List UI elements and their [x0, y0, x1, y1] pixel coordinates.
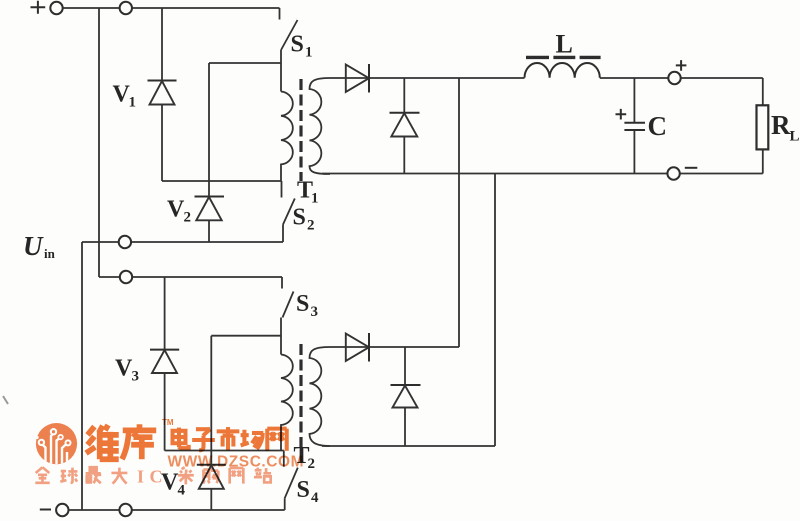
wire primary bottom junction [162, 180, 281, 182]
label T1 [297, 178, 319, 207]
watermark text dianzishichangwang [173, 428, 189, 449]
terminal + input [50, 2, 62, 14]
svg-text:S: S [296, 291, 309, 317]
label Uin [23, 231, 56, 261]
svg-text:V: V [167, 197, 185, 223]
label V1 [113, 82, 137, 111]
watermark logo circle [36, 423, 77, 464]
label - (output minus) [685, 167, 698, 169]
terminal top mid [120, 2, 132, 14]
terminal - output [667, 167, 679, 179]
terminal + output [668, 72, 680, 84]
svg-text:1: 1 [129, 95, 137, 111]
svg-text:I: I [137, 467, 144, 487]
svg-text:C: C [150, 467, 163, 487]
svg-text:TM: TM [162, 418, 174, 427]
svg-text:4: 4 [178, 483, 186, 499]
label + (capacitor polarity) [616, 109, 627, 120]
wire mid rail 2 [99, 276, 282, 278]
wire left vertical (top rail to wire2) [98, 8, 100, 277]
label T2 [294, 443, 316, 472]
transformer T2 secondary [310, 347, 331, 446]
diode V1 [148, 8, 177, 181]
wire left vertical (wire1 to bottom rail) [81, 242, 83, 510]
diode V2 [195, 63, 225, 242]
wire S3-junction stub [211, 335, 281, 337]
label S4 [297, 477, 320, 506]
wire parallel link bottom [494, 174, 496, 447]
svg-text:V: V [161, 470, 179, 496]
transformer T1 secondary [310, 78, 331, 174]
svg-text:S: S [297, 477, 310, 503]
wire mid rail 1 [82, 241, 283, 243]
wire lower rectifier bottom [322, 445, 495, 447]
svg-text:U: U [23, 231, 44, 261]
svg-text:S: S [293, 205, 306, 231]
diode V4 [197, 336, 226, 510]
label - (input minus) [40, 509, 51, 511]
rectifier diode VD3 [346, 333, 369, 362]
wire T2 primary bottom junction [165, 450, 284, 452]
terminal mid rail 2 [120, 271, 132, 283]
freewheel diode VD2 [390, 78, 420, 174]
wire output bottom rail [322, 173, 763, 175]
inductor L [525, 63, 600, 78]
diode V3 [150, 277, 179, 451]
transformer T1 primary [281, 92, 293, 182]
svg-text:1: 1 [311, 191, 319, 207]
switch S2 [282, 181, 295, 242]
wire S1-junction stub [209, 62, 281, 64]
wire lower rectifier top [330, 346, 459, 348]
inductor L core [526, 56, 601, 59]
wire output top rail [330, 77, 763, 79]
svg-text:L: L [556, 30, 573, 59]
capacitor C [624, 78, 645, 174]
terminal bottom mid [119, 504, 131, 516]
svg-text:2: 2 [307, 218, 315, 234]
label S1 [291, 32, 313, 61]
rectifier diode VD1 [346, 64, 369, 93]
svg-text:3: 3 [132, 369, 140, 385]
label S3 [296, 291, 318, 320]
svg-text:R: R [771, 110, 791, 140]
label V4 [161, 470, 186, 499]
label + (output plus) [676, 60, 687, 71]
watermark text weiku [86, 425, 119, 459]
switch S1 [280, 8, 298, 92]
watermark slogan [35, 467, 49, 483]
svg-text:4: 4 [311, 490, 319, 506]
terminal - input [56, 504, 68, 516]
label V2 [167, 197, 191, 226]
transformer T2 core [299, 344, 302, 451]
transformer T1 core [299, 79, 302, 181]
stray mark [3, 396, 8, 404]
label S2 [293, 205, 315, 234]
svg-text:V: V [115, 356, 133, 382]
transformer T2 primary [281, 355, 293, 451]
label + (input plus) [31, 1, 46, 14]
wire bottom rail [68, 509, 285, 511]
watermark [35, 418, 304, 487]
svg-text:2: 2 [308, 456, 316, 472]
label RL [771, 110, 800, 145]
resistor RL [757, 78, 769, 174]
svg-text:3: 3 [311, 304, 319, 320]
label V3 [115, 356, 139, 385]
wire parallel link top [458, 78, 460, 347]
svg-text:1: 1 [305, 45, 313, 61]
svg-text:C: C [648, 111, 668, 141]
wire top rail [62, 7, 279, 9]
switch S3 [281, 277, 294, 355]
svg-text:in: in [44, 246, 56, 261]
svg-text:2: 2 [184, 210, 192, 226]
svg-text:S: S [291, 32, 304, 58]
terminal mid rail 1 [119, 236, 131, 248]
switch S4 [284, 451, 298, 511]
svg-text:L: L [790, 129, 800, 145]
freewheel diode VD4 [391, 347, 421, 446]
